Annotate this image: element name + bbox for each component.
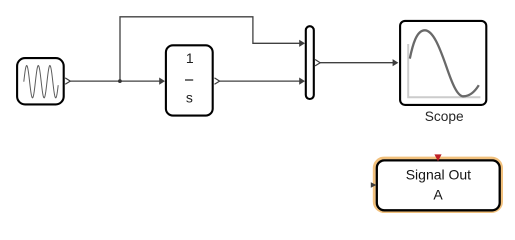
block body xyxy=(377,160,500,210)
integrator block xyxy=(166,45,220,115)
sine output port chevron xyxy=(65,78,70,84)
svg-text:1: 1 xyxy=(186,50,194,66)
svg-text:s: s xyxy=(186,89,193,105)
wire: integrator output to mux bottom input xyxy=(218,78,305,85)
orange highlight outline xyxy=(374,158,501,212)
mux output port chevron xyxy=(315,60,320,66)
integrator output port chevron xyxy=(215,78,220,84)
scope block xyxy=(400,21,486,105)
scope curve xyxy=(410,30,479,96)
signal out input port xyxy=(371,182,377,188)
wire: mux output to scope input xyxy=(319,59,398,66)
svg-text:Scope: Scope xyxy=(425,109,464,124)
svg-text:Signal Out: Signal Out xyxy=(406,167,471,183)
red test point marker xyxy=(434,154,441,161)
scope axes xyxy=(408,44,480,97)
mux block xyxy=(306,26,320,99)
signal out block (highlighted) xyxy=(371,154,502,211)
wire: branch from junction up and over to mux top input xyxy=(120,17,305,81)
sine wave source block xyxy=(17,58,70,104)
junction dot xyxy=(118,79,122,83)
wire: sine wave output to integrator input xyxy=(68,78,165,85)
fraction bar xyxy=(185,79,193,81)
svg-text:A: A xyxy=(433,187,443,203)
sine wave icon xyxy=(24,66,58,98)
